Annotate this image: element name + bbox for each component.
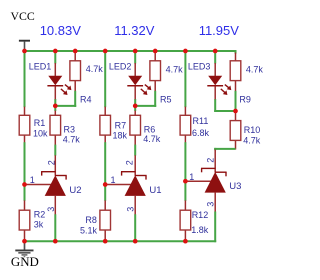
- svg-text:3: 3: [126, 207, 136, 212]
- svg-text:R10: R10: [244, 125, 261, 135]
- svg-text:5.1k: 5.1k: [80, 226, 98, 236]
- svg-text:VCC: VCC: [11, 9, 35, 23]
- svg-text:R9: R9: [239, 94, 251, 104]
- svg-text:10k: 10k: [33, 129, 48, 139]
- svg-text:4.7k: 4.7k: [243, 136, 261, 146]
- svg-text:R12: R12: [192, 210, 209, 220]
- svg-text:2: 2: [125, 160, 135, 165]
- svg-text:U1: U1: [149, 185, 161, 196]
- svg-text:11.95V: 11.95V: [199, 23, 240, 38]
- svg-text:2: 2: [47, 160, 57, 165]
- svg-text:3k: 3k: [34, 220, 44, 230]
- svg-text:GND: GND: [11, 255, 39, 269]
- svg-text:6.8k: 6.8k: [192, 128, 210, 138]
- svg-text:R7: R7: [115, 120, 127, 130]
- svg-text:4.7k: 4.7k: [63, 135, 81, 145]
- svg-text:4.7k: 4.7k: [246, 65, 264, 75]
- svg-text:3: 3: [46, 207, 56, 212]
- svg-text:LED3: LED3: [188, 61, 211, 71]
- svg-text:3: 3: [206, 202, 216, 207]
- svg-text:LED1: LED1: [29, 61, 52, 71]
- svg-text:R6: R6: [144, 125, 156, 135]
- svg-text:2: 2: [206, 158, 216, 163]
- svg-text:U2: U2: [69, 185, 81, 196]
- svg-text:1: 1: [111, 175, 116, 185]
- svg-text:10.83V: 10.83V: [40, 23, 82, 38]
- svg-text:4.7k: 4.7k: [143, 134, 161, 144]
- svg-text:LED2: LED2: [109, 61, 132, 71]
- svg-text:R8: R8: [85, 215, 97, 225]
- svg-text:11.32V: 11.32V: [114, 23, 155, 38]
- svg-text:R3: R3: [64, 125, 76, 135]
- svg-text:R1: R1: [34, 118, 46, 128]
- svg-text:18k: 18k: [113, 130, 128, 140]
- svg-text:4.7k: 4.7k: [86, 64, 104, 74]
- svg-text:R5: R5: [160, 95, 172, 105]
- svg-text:4.7k: 4.7k: [166, 64, 184, 74]
- svg-text:1.8k: 1.8k: [191, 225, 209, 235]
- svg-text:R4: R4: [80, 95, 92, 105]
- svg-text:R11: R11: [193, 116, 209, 126]
- svg-text:R2: R2: [34, 210, 46, 220]
- svg-text:1: 1: [30, 175, 35, 185]
- svg-text:U3: U3: [229, 181, 241, 192]
- svg-text:1: 1: [189, 172, 194, 182]
